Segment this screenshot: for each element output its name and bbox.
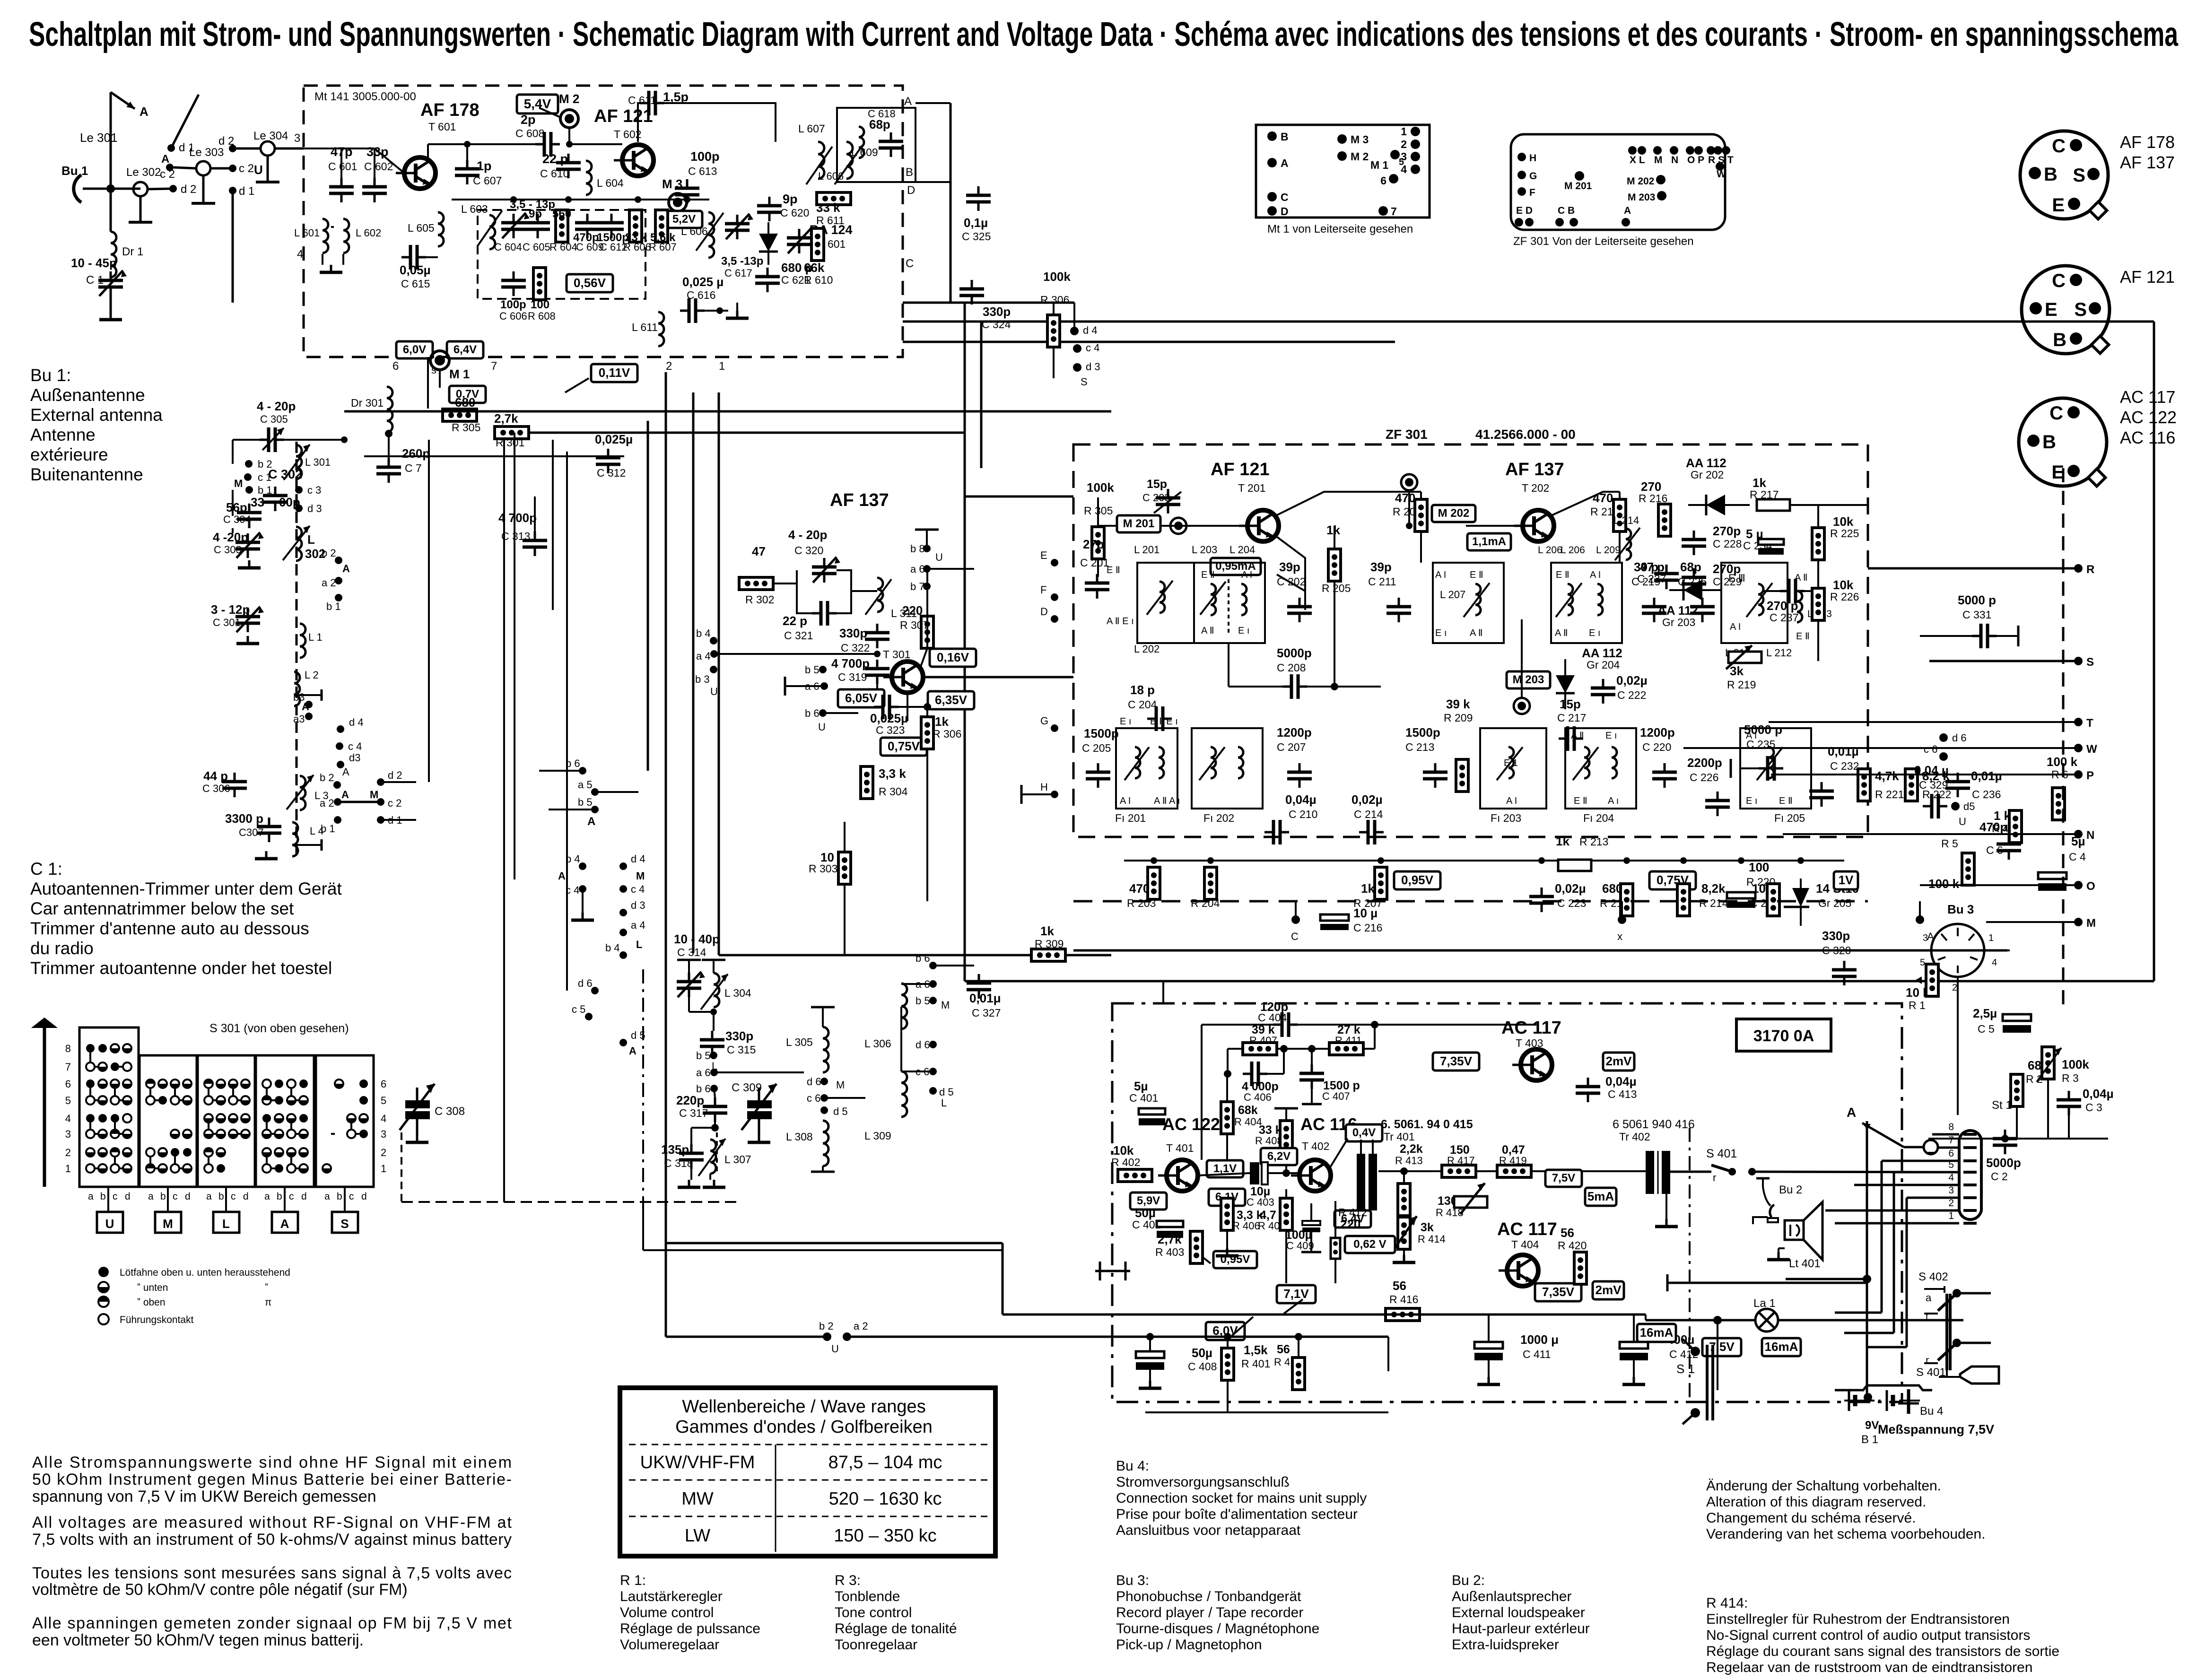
svg-text:extérieure: extérieure: [30, 445, 108, 464]
pinout circle AC117 AC122 AC116: [2019, 398, 2107, 486]
svg-text:S: S: [2086, 656, 2094, 669]
svg-text:C 308: C 308: [435, 1105, 465, 1118]
svg-text:270p: 270p: [1713, 562, 1741, 576]
svg-text:U: U: [105, 1217, 114, 1231]
svg-text:b 2: b 2: [322, 547, 336, 559]
svg-text:C 7: C 7: [405, 462, 422, 474]
PCB layout box Mt 1: [1256, 125, 1430, 218]
svg-text:M: M: [941, 999, 950, 1011]
voltage label 0,4V: [1346, 1124, 1382, 1141]
svg-text:M: M: [636, 870, 645, 882]
trimmer C 301 3-12p: [235, 608, 260, 632]
pin c6 mid2: [929, 1068, 937, 1075]
ground C616: [736, 303, 738, 311]
svg-text:x: x: [1617, 931, 1622, 942]
svg-text:L 203: L 203: [1192, 544, 1217, 556]
svg-text:R 2: R 2: [2026, 1073, 2043, 1085]
pin W right: [2074, 744, 2083, 752]
svg-text:A: A: [140, 104, 148, 119]
svg-text:0,04µ: 0,04µ: [2083, 1087, 2114, 1101]
switch pin c3 am: [295, 486, 303, 494]
resistor R 304 3,3k: [861, 766, 873, 799]
svg-text:AF 137: AF 137: [1505, 460, 1564, 479]
svg-text:Gr 202: Gr 202: [1691, 469, 1724, 481]
svg-text:Lt 401: Lt 401: [1789, 1257, 1821, 1270]
pad M 2 Mt1: [1337, 151, 1347, 161]
svg-text:7: 7: [1948, 1135, 1954, 1146]
svg-text:A: A: [558, 870, 566, 882]
svg-text:d 2: d 2: [218, 135, 234, 148]
svg-text:R 414: R 414: [1418, 1233, 1446, 1245]
wire T202 collector: [1551, 492, 1620, 516]
svg-text:R 3: R 3: [2062, 1072, 2079, 1084]
svg-text:b: b: [277, 1191, 282, 1202]
St1 pin 4: [1854, 1184, 1959, 1186]
legend Fuehrungskontakt: [98, 1314, 109, 1324]
svg-text:L 212: L 212: [1766, 647, 1792, 659]
svg-text:10 µ: 10 µ: [1353, 906, 1378, 920]
pin d3 right: [1073, 363, 1081, 372]
svg-text:Bu 1: Bu 1: [61, 164, 88, 178]
svg-text:A Ⅱ: A Ⅱ: [1470, 628, 1483, 638]
svg-text:1k: 1k: [1556, 834, 1569, 848]
svg-text:4 - 20p: 4 - 20p: [788, 528, 827, 542]
voltage label 6,2V: [1261, 1148, 1297, 1165]
svg-text:E Ⅱ: E Ⅱ: [1779, 796, 1793, 806]
svg-text:0,1µ: 0,1µ: [964, 216, 988, 230]
switch pin c4 am2: [336, 742, 343, 750]
svg-text:c 4: c 4: [348, 740, 362, 752]
voltage label 6,35V: [928, 691, 974, 709]
svg-text:S 1: S 1: [1676, 1362, 1695, 1376]
svg-text:d: d: [301, 1191, 307, 1202]
pin P right: [2074, 770, 2083, 779]
svg-text:r: r: [1926, 1310, 1929, 1322]
svg-text:C 216: C 216: [1353, 922, 1382, 934]
svg-text:C: C: [2052, 136, 2066, 157]
svg-text:M: M: [163, 1217, 173, 1231]
contact d1 lower: [229, 187, 236, 194]
svg-text:M 2: M 2: [1351, 150, 1369, 163]
trimmer C 617 3,5-13p: [725, 215, 750, 239]
svg-text:d3: d3: [349, 752, 360, 764]
svg-text:b 8: b 8: [910, 543, 925, 555]
svg-text:L 611: L 611: [632, 321, 658, 333]
svg-text:AF 121: AF 121: [2120, 267, 2175, 287]
pad D Mt1: [1267, 206, 1277, 216]
svg-text:R 608: R 608: [528, 310, 556, 322]
svg-text:A I: A I: [1730, 622, 1741, 632]
capacitor C 302 3300p: [263, 487, 288, 511]
svg-text:R 403: R 403: [1155, 1246, 1184, 1258]
svg-text:10k: 10k: [1833, 578, 1854, 592]
voltage label 7,1V: [1277, 1285, 1316, 1303]
svg-text:Aansluitbus voor netapparaat: Aansluitbus voor netapparaat: [1116, 1523, 1301, 1538]
svg-text:R 420: R 420: [1558, 1239, 1587, 1252]
svg-text:1: 1: [719, 360, 725, 373]
switch contact Le 302: [133, 182, 148, 196]
svg-text:L 305: L 305: [786, 1036, 813, 1048]
varicap trimmer BA124: [787, 229, 811, 253]
svg-text:C 232: C 232: [1830, 760, 1859, 772]
wire tank to A pin: [876, 103, 877, 108]
wire dashed bottom of IF: [1073, 900, 1868, 903]
switch pin c4b col: [619, 885, 627, 893]
svg-text:D: D: [1040, 606, 1048, 618]
svg-text:R 402: R 402: [1111, 1156, 1140, 1168]
St1 pin 3: [1907, 1197, 1959, 1199]
wire T201 emitter: [1275, 536, 1305, 610]
capacitor C 322 330p: [865, 624, 889, 648]
contact grid S301: [86, 1044, 95, 1053]
contact d2 left: [169, 185, 177, 192]
diode Gr 601 BA 124: [759, 234, 778, 252]
coil Dr 1: [110, 189, 112, 232]
svg-text:1200p: 1200p: [1277, 725, 1312, 740]
svg-text:C 608: C 608: [515, 127, 544, 139]
svg-text:S 301 (von oben gesehen): S 301 (von oben gesehen): [209, 1022, 349, 1035]
FM oscillator inner dashed box: [478, 210, 645, 299]
switch pin d4 col: [619, 862, 627, 870]
PCB layout box ZF 301: [1511, 134, 1725, 230]
svg-text:AC 117: AC 117: [1501, 1018, 1561, 1038]
svg-text:Prise pour boîte d'alimentatio: Prise pour boîte d'alimentation secteur: [1116, 1506, 1358, 1522]
svg-text:E ı: E ı: [1605, 731, 1617, 741]
wire output row y2477: [1378, 1170, 1442, 1172]
switch pin b2 right: [335, 557, 342, 564]
capacitor C 620 9p: [757, 197, 782, 221]
svg-text:100 k: 100 k: [1928, 877, 1960, 891]
switch pins b5 a6 b6 mixer: [819, 666, 827, 673]
svg-text:c 6: c 6: [1924, 743, 1937, 755]
wire IF bottom rail y2010: [1073, 949, 2007, 952]
svg-text:d: d: [185, 1191, 191, 1202]
svg-text:B: B: [1281, 131, 1289, 143]
wire R401 bottom: [1145, 1411, 1388, 1413]
IF transformer L 207 box: [1433, 563, 1504, 643]
capacitor C 325 0,1u: [966, 186, 991, 211]
ground C318: [678, 1180, 700, 1187]
switch pin a5 col: [591, 788, 599, 796]
svg-text:R 306: R 306: [1040, 294, 1069, 306]
wire FM box bottom pins: [427, 357, 429, 409]
svg-text:spannung von 7,5 V im UKW: spannung von 7,5 V im UKW Bereich gemess…: [32, 1488, 376, 1506]
svg-text:a 6: a 6: [910, 563, 925, 575]
wire C404 top: [1202, 1024, 1273, 1026]
svg-text:Bu 4:: Bu 4:: [1116, 1458, 1149, 1474]
svg-text:d: d: [125, 1191, 131, 1202]
svg-text:C 228: C 228: [1713, 538, 1742, 550]
svg-text:47: 47: [752, 544, 766, 558]
svg-text:0,95V: 0,95V: [1401, 873, 1434, 887]
pad 2 Mt1: [1411, 139, 1420, 149]
svg-text:2mV: 2mV: [1596, 1283, 1622, 1297]
svg-text:d 4: d 4: [631, 853, 645, 865]
svg-text:4: 4: [1992, 958, 1997, 968]
switch rail verticals S402: [1945, 1294, 1948, 1370]
svg-text:A: A: [1624, 205, 1631, 216]
svg-text:d 2: d 2: [388, 769, 402, 781]
svg-text:18 p: 18 p: [1130, 683, 1155, 697]
svg-text:S: S: [2074, 299, 2087, 320]
pad M ZF301: [1653, 146, 1662, 155]
pin b6 osc: [710, 1085, 718, 1092]
svg-text:1: 1: [1401, 125, 1407, 138]
pin D IF: [1051, 615, 1058, 623]
contact links S301: [89, 1053, 91, 1062]
svg-text:R 404: R 404: [1234, 1116, 1262, 1128]
svg-text:L 605: L 605: [408, 222, 435, 234]
svg-text:AC 117: AC 117: [2120, 387, 2175, 407]
svg-text:6,35V: 6,35V: [935, 693, 968, 707]
svg-text:C 205: C 205: [1082, 742, 1111, 754]
pad H ZF301: [1517, 153, 1526, 161]
wire vertical x1199: [566, 452, 568, 991]
capacitor C 216 10u: [1320, 914, 1349, 930]
svg-text:Gr 204: Gr 204: [1587, 659, 1620, 671]
svg-text:68k: 68k: [1238, 1104, 1258, 1117]
svg-text:1,1mA: 1,1mA: [1472, 535, 1506, 548]
svg-text:R 5: R 5: [1941, 837, 1958, 850]
coil L 311: [877, 578, 883, 612]
switch pin c2 mid: [377, 798, 384, 806]
pin b5 osc: [710, 1052, 717, 1059]
wire long horizontal y723: [903, 341, 1395, 343]
svg-text:b 1: b 1: [326, 601, 341, 612]
svg-text:7: 7: [1391, 205, 1397, 218]
switch pin b5 col: [591, 806, 599, 813]
band button S: [332, 1212, 358, 1233]
svg-text:L 609: L 609: [851, 146, 878, 158]
pin b6 mid2: [929, 962, 937, 969]
svg-text:AA 112: AA 112: [1657, 603, 1698, 618]
svg-text:C 613: C 613: [688, 165, 717, 177]
pad C Mt1: [1267, 192, 1277, 201]
svg-text:d 6: d 6: [807, 1076, 821, 1088]
switch pin a3 am2: [305, 713, 313, 720]
socket Bu 4: [1864, 1393, 1872, 1401]
svg-text:C 322: C 322: [841, 642, 870, 654]
svg-text:C 237: C 237: [1770, 611, 1798, 624]
svg-text:P: P: [2086, 769, 2094, 782]
svg-text:R 1:: R 1:: [620, 1573, 646, 1588]
svg-text:R 213: R 213: [1579, 836, 1608, 848]
svg-text:Tone control: Tone control: [835, 1605, 912, 1620]
svg-text:7,5 volts with an instrumen: 7,5 volts with an instrument of 50 k-ohm…: [32, 1531, 512, 1549]
svg-text:C 301: C 301: [213, 617, 241, 628]
svg-text:150 – 350 kc: 150 – 350 kc: [834, 1526, 937, 1546]
svg-text:2: 2: [1948, 1198, 1954, 1209]
svg-text:L 603: L 603: [461, 203, 488, 215]
IF transformer L 211 box: [1721, 563, 1787, 643]
resistor R 610 66k: [811, 228, 824, 261]
svg-text:C 214: C 214: [1354, 808, 1383, 820]
svg-text:1200p: 1200p: [1640, 725, 1675, 740]
svg-text:R 416: R 416: [1389, 1293, 1418, 1306]
svg-text:D: D: [1281, 205, 1289, 218]
IF transformer Fi 202: [1192, 728, 1263, 809]
resistor R 306 1k mixer: [921, 717, 933, 749]
svg-text:10k: 10k: [1833, 514, 1854, 529]
svg-text:AA 112: AA 112: [1686, 456, 1726, 470]
svg-text:R 306: R 306: [933, 728, 961, 740]
svg-text:L 304: L 304: [724, 987, 751, 999]
svg-text:R: R: [2086, 563, 2094, 576]
measuring point M 1: [430, 351, 449, 370]
wire am vertical x492: [232, 490, 234, 516]
svg-text:Buitenantenne: Buitenantenne: [30, 465, 143, 484]
svg-text:M 1: M 1: [1370, 159, 1389, 171]
svg-text:66k: 66k: [804, 261, 825, 275]
voltage label 6,0V: [396, 341, 433, 358]
svg-text:B: B: [2044, 164, 2058, 185]
svg-text:L 309: L 309: [864, 1130, 891, 1142]
svg-text:270 p: 270 p: [1767, 599, 1798, 613]
pin a6 mid2: [929, 980, 937, 988]
svg-text:1000 μ: 1000 μ: [1520, 1332, 1559, 1347]
svg-text:8: 8: [65, 1043, 71, 1054]
voltage label 0,56V: [567, 274, 613, 292]
svg-text:r: r: [1926, 1354, 1929, 1366]
switch pin b8 mixer: [926, 530, 928, 548]
svg-text:L 607: L 607: [798, 122, 825, 135]
svg-text:A: A: [587, 815, 595, 828]
svg-text:L 602: L 602: [356, 227, 381, 239]
svg-text:50µ: 50µ: [1192, 1346, 1212, 1360]
switch pin d5 col: [619, 1039, 627, 1046]
svg-text:4: 4: [65, 1113, 71, 1124]
svg-text:3300 p: 3300 p: [225, 811, 263, 826]
resistor R 303 10: [838, 852, 851, 884]
resistor R 608 100: [533, 268, 546, 300]
svg-text:Pick-up / Magnetophon: Pick-up / Magnetophon: [1116, 1637, 1262, 1653]
svg-text:Volume control: Volume control: [620, 1605, 714, 1620]
capacitor C 403 10u: [1250, 1162, 1259, 1184]
svg-text:5000p: 5000p: [1277, 646, 1312, 660]
wire audio rail y2780: [1003, 1314, 1646, 1316]
switch wafer box 3 L: [198, 1055, 255, 1187]
coil L 605: [438, 212, 444, 246]
svg-text:C 315: C 315: [727, 1044, 756, 1056]
arrow A antenna lead: [110, 92, 112, 189]
band button U: [97, 1212, 123, 1233]
switch pin a2 right: [335, 577, 342, 584]
transformer Tr 402: [1646, 1151, 1654, 1194]
svg-text:4 700p: 4 700p: [831, 656, 870, 670]
pin S right: [2074, 657, 2083, 665]
svg-text:6. 5061. 94 0 415: 6. 5061. 94 0 415: [1381, 1118, 1473, 1131]
IF transformer Fi 204: [1565, 728, 1636, 809]
resistor R 222 8,2k: [1905, 769, 1918, 801]
svg-text:a 5: a 5: [578, 779, 593, 791]
wire W: [1683, 747, 2078, 749]
svg-text:a 2: a 2: [322, 577, 336, 589]
svg-text:b 4: b 4: [605, 942, 620, 954]
svg-text:a: a: [1926, 1292, 1932, 1304]
svg-text:8,2k: 8,2k: [1701, 881, 1726, 896]
wire power rail y2075: [965, 980, 2154, 983]
coil L 309: [901, 1071, 907, 1117]
svg-text:M 203: M 203: [1628, 192, 1655, 203]
switch pin a4 wire: [714, 653, 877, 655]
svg-text:O: O: [2086, 880, 2095, 893]
svg-text:Meßspannung 7,5V: Meßspannung 7,5V: [1878, 1422, 1994, 1436]
trimmer C 303 4-20p: [235, 533, 260, 558]
svg-text:U: U: [710, 686, 718, 697]
svg-text:B 1: B 1: [1861, 1433, 1878, 1446]
switch pin d4 am2: [337, 725, 344, 733]
svg-text:50 kOhm Instrument gegen M: 50 kOhm Instrument gegen Minus Batterie …: [32, 1471, 512, 1488]
switch pin b1 am: [245, 486, 253, 494]
svg-text:Antenne: Antenne: [30, 425, 96, 444]
wavy supply line: [1835, 1385, 1932, 1390]
svg-text:22 p: 22 p: [783, 614, 807, 628]
wire audio top connects: [1162, 981, 1164, 1003]
wire volume net: [1957, 978, 1959, 1115]
svg-text:External antenna: External antenna: [30, 405, 163, 425]
svg-text:d: d: [243, 1191, 249, 1202]
wire horizontal y870: [344, 410, 1111, 413]
svg-text:L 306: L 306: [864, 1037, 891, 1050]
pad F ZF301: [1517, 187, 1526, 196]
wire vertical x1066: [503, 440, 505, 1202]
svg-text:a 2: a 2: [854, 1320, 868, 1332]
svg-text:b: b: [160, 1191, 166, 1202]
svg-text:Bu 4: Bu 4: [1920, 1405, 1943, 1418]
svg-text:E D: E D: [1516, 205, 1533, 216]
svg-text:5: 5: [1948, 1159, 1954, 1170]
wire antenna input inside FM: [304, 148, 341, 149]
wire C320 C321 loop: [773, 583, 797, 584]
svg-text:E Ⅱ: E Ⅱ: [1556, 570, 1569, 580]
svg-text:2,5µ: 2,5µ: [1973, 1006, 1997, 1020]
svg-text:C 211: C 211: [1368, 575, 1396, 588]
svg-text:π: π: [265, 1297, 272, 1308]
svg-text:M 201: M 201: [1123, 517, 1155, 530]
svg-text:5,2V: 5,2V: [672, 213, 696, 226]
coil L 213: [1797, 591, 1802, 622]
svg-text:U: U: [831, 1343, 839, 1355]
wire bus vertical x2040: [964, 303, 966, 981]
svg-text:L 1: L 1: [308, 631, 323, 643]
wire C611 net: [569, 143, 622, 145]
svg-text:W: W: [1717, 169, 1726, 180]
svg-text:Außenantenne: Außenantenne: [30, 385, 145, 405]
svg-text:C 602: C 602: [364, 160, 393, 173]
svg-text:R 225: R 225: [1830, 527, 1859, 540]
svg-text:Fı 203: Fı 203: [1491, 812, 1521, 824]
svg-text:270p: 270p: [1713, 524, 1741, 538]
svg-text:Tr 402: Tr 402: [1619, 1131, 1650, 1143]
svg-text:1,5k: 1,5k: [1244, 1343, 1268, 1357]
voltage label 2mV T404: [1593, 1281, 1624, 1299]
svg-text:c 3: c 3: [307, 484, 321, 496]
svg-text:Tonblende: Tonblende: [835, 1589, 900, 1604]
svg-text:d 3: d 3: [1086, 361, 1100, 373]
svg-text:R 209: R 209: [1444, 712, 1473, 724]
svg-text:Phonobuchse / Tonbandgerät: Phonobuchse / Tonbandgerät: [1116, 1589, 1301, 1604]
wire mixer out to IF right: [923, 676, 1073, 679]
voltage label 5mA: [1585, 1188, 1616, 1206]
wire long horizontal y680: [903, 321, 2154, 323]
svg-text:470: 470: [1593, 491, 1613, 505]
svg-text:C B: C B: [1558, 205, 1575, 216]
svg-text:Bu 3:: Bu 3:: [1116, 1573, 1149, 1588]
svg-text:External loudspeaker: External loudspeaker: [1452, 1605, 1585, 1620]
svg-text:C 411: C 411: [1523, 1348, 1551, 1360]
svg-text:G: G: [1529, 171, 1537, 182]
svg-text:4: 4: [381, 1113, 386, 1124]
